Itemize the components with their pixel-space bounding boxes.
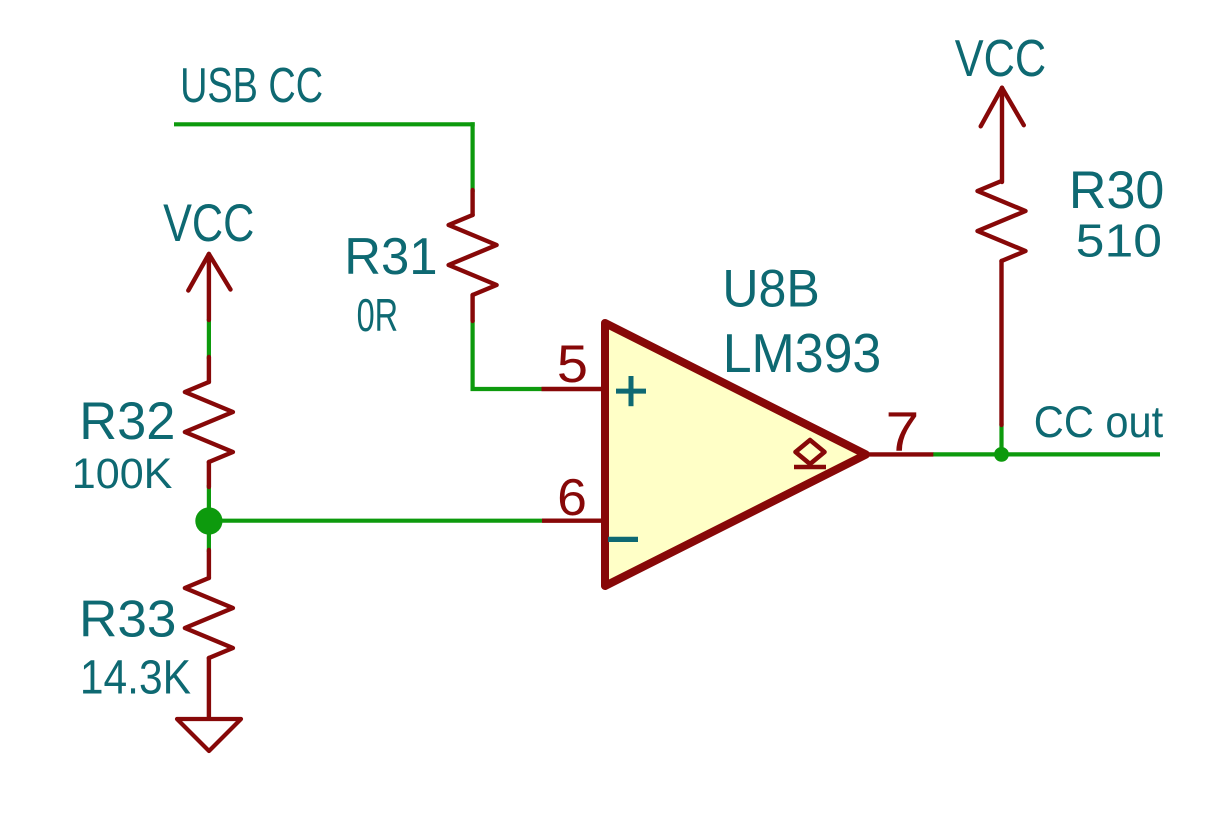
svg-text:U8B: U8B (722, 259, 819, 318)
resistor R30 (978, 181, 1026, 425)
wire R32 to junction to R33 (207, 485, 211, 552)
wire USB CC horizontal (174, 122, 475, 126)
resistor R32 (185, 357, 233, 487)
pin 5 stub (542, 387, 605, 391)
resistor R31 (449, 190, 497, 321)
wire USB CC vertical drop to R31 (471, 122, 475, 192)
open collector symbol (794, 440, 826, 467)
op-amp minus input mark (608, 537, 638, 542)
svg-text:CC out: CC out (1034, 398, 1164, 447)
wire R31 bottom to corner (471, 320, 475, 391)
node junction dot left (195, 507, 222, 534)
svg-text:VCC: VCC (163, 195, 254, 253)
wire output CC out (933, 452, 1160, 456)
wire VCC to R32 (207, 319, 211, 359)
svg-text:R31: R31 (344, 227, 437, 285)
pin 7 stub (866, 452, 933, 456)
node junction dot right (994, 447, 1009, 462)
wire junction to pin 6 (209, 519, 542, 523)
op-amp plus input mark (616, 376, 646, 406)
svg-text:R30: R30 (1069, 161, 1164, 220)
svg-text:5: 5 (557, 336, 588, 394)
wire corner to pin 5 (471, 387, 542, 391)
ground (177, 719, 241, 751)
svg-text:LM393: LM393 (723, 323, 882, 384)
pin 6 stub (542, 519, 604, 523)
svg-text:7: 7 (886, 400, 920, 462)
svg-text:R33: R33 (79, 591, 177, 649)
wire R30 bottom green stub (999, 424, 1003, 455)
svg-text:0R: 0R (357, 289, 399, 341)
resistor R33 (185, 550, 233, 719)
svg-text:USB CC: USB CC (180, 58, 323, 113)
op-amp U8B body (605, 323, 866, 586)
power VCC right arrow (981, 88, 1024, 182)
svg-text:R32: R32 (79, 392, 175, 451)
svg-text:6: 6 (557, 469, 587, 527)
power VCC left arrow (188, 254, 230, 320)
svg-text:VCC: VCC (955, 30, 1046, 88)
svg-text:510: 510 (1076, 214, 1162, 266)
svg-text:100K: 100K (72, 450, 173, 498)
svg-text:14.3K: 14.3K (80, 650, 191, 704)
